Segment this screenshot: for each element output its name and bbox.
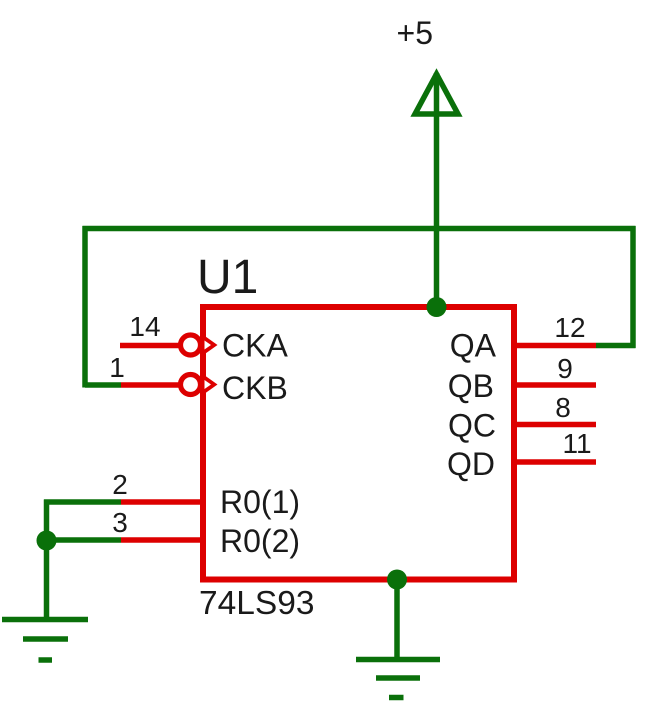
wire QA to feedback	[596, 343, 636, 349]
CKB clock wedge	[202, 374, 218, 396]
svg-text:R0(1): R0(1)	[220, 484, 300, 520]
svg-text:2: 2	[112, 469, 128, 500]
svg-text:CKB: CKB	[222, 370, 288, 406]
wire feedback right vertical	[630, 226, 636, 348]
ground left	[2, 620, 88, 661]
pin 8 QC stub	[514, 422, 596, 428]
ground center	[356, 660, 440, 698]
svg-text:74LS93: 74LS93	[199, 585, 315, 622]
wire gnd-left pin3 horizontal	[44, 537, 121, 543]
pin 11 QD stub	[514, 459, 596, 465]
wire feedback to CKB	[85, 382, 121, 388]
svg-text:8: 8	[555, 392, 571, 423]
svg-text:+5: +5	[397, 15, 433, 51]
junction dot pins 2-3	[37, 531, 57, 551]
pin 3 R0(2) stub	[121, 537, 203, 543]
svg-text:U1: U1	[197, 251, 258, 304]
svg-text:3: 3	[112, 507, 128, 538]
svg-text:QD: QD	[447, 446, 495, 482]
IC U1 body	[203, 307, 514, 580]
svg-text:CKA: CKA	[222, 328, 288, 364]
power symbol +5 arrow	[415, 74, 458, 114]
svg-text:12: 12	[554, 312, 585, 343]
wire gnd-left drop	[44, 540, 50, 619]
svg-text:14: 14	[129, 311, 160, 342]
wire feedback top horizontal	[83, 226, 636, 232]
svg-text:1: 1	[109, 352, 125, 383]
junction dot VCC on U1 top edge	[427, 297, 447, 317]
svg-text:R0(2): R0(2)	[220, 523, 300, 559]
junction dot gnd on U1 bottom edge	[387, 570, 407, 590]
pin 2 R0(1) stub	[121, 499, 203, 505]
svg-text:QC: QC	[448, 408, 496, 444]
wire gnd-left pin2 horizontal	[44, 499, 121, 505]
CKA clock wedge	[202, 334, 218, 356]
wire gnd-left vertical pin2 to pin3	[44, 500, 50, 541]
pin 12 QA stub	[514, 343, 596, 349]
pin 1 CKB stub	[121, 382, 180, 388]
svg-text:9: 9	[557, 353, 573, 384]
svg-text:QA: QA	[450, 328, 497, 364]
pin 14 CKA stub	[120, 343, 180, 349]
wire power vertical	[434, 73, 440, 307]
pin 9 QB stub	[514, 382, 596, 388]
svg-text:11: 11	[562, 428, 591, 459]
wire feedback left vertical	[82, 226, 88, 388]
wire gnd-center drop	[394, 580, 400, 660]
CKB inversion bubble	[181, 375, 201, 395]
CKA inversion bubble	[181, 335, 201, 355]
svg-text:QB: QB	[448, 368, 494, 404]
